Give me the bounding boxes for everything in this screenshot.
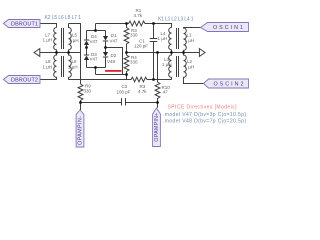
svg-text:330: 330 bbox=[84, 89, 92, 94]
svg-text:1 µH: 1 µH bbox=[158, 36, 168, 41]
svg-text:D2: D2 bbox=[111, 53, 117, 58]
svg-text:K2 L5 L6 L8 L7 1: K2 L5 L6 L8 L7 1 bbox=[45, 15, 82, 21]
svg-text:1 µH: 1 µH bbox=[43, 65, 53, 70]
svg-text:C3: C3 bbox=[122, 84, 128, 89]
svg-text:L5: L5 bbox=[72, 33, 78, 38]
svg-text:V47: V47 bbox=[90, 56, 99, 61]
svg-text:47: 47 bbox=[163, 90, 169, 95]
svg-text:4.7k: 4.7k bbox=[134, 13, 143, 18]
svg-text:1 µH: 1 µH bbox=[185, 65, 195, 70]
svg-text:L1: L1 bbox=[187, 33, 193, 38]
svg-text:1 µH: 1 µH bbox=[162, 62, 172, 67]
svg-text:V47: V47 bbox=[90, 39, 99, 44]
svg-text:1 µH: 1 µH bbox=[69, 38, 79, 43]
svg-text:L6: L6 bbox=[72, 59, 78, 64]
svg-text:1 µH: 1 µH bbox=[43, 38, 53, 43]
svg-text:OPAMPIN-: OPAMPIN- bbox=[78, 116, 84, 145]
svg-text:OPAMPIN+: OPAMPIN+ bbox=[154, 113, 160, 142]
svg-text:L2: L2 bbox=[187, 59, 193, 64]
svg-text:330: 330 bbox=[130, 60, 138, 65]
svg-text:DBROUT2: DBROUT2 bbox=[11, 78, 38, 84]
svg-text:V48: V48 bbox=[107, 59, 116, 64]
svg-text:330: 330 bbox=[130, 33, 138, 38]
svg-text:SPICE Directives [Models]: SPICE Directives [Models] bbox=[168, 105, 238, 111]
svg-text:R1: R1 bbox=[136, 8, 142, 13]
svg-text:.model V47 D(bv=3p Cjo=10.5p): .model V47 D(bv=3p Cjo=10.5p) bbox=[163, 112, 246, 118]
svg-text:DBROUT1: DBROUT1 bbox=[11, 22, 38, 28]
svg-text:100 pF: 100 pF bbox=[117, 89, 131, 94]
svg-text:L8: L8 bbox=[46, 59, 52, 64]
svg-text:.model V48 D(bv=7p Cjo=20.5p): .model V48 D(bv=7p Cjo=20.5p) bbox=[163, 119, 246, 125]
svg-text:1 µH: 1 µH bbox=[68, 65, 78, 70]
svg-text:4.7k: 4.7k bbox=[138, 89, 147, 94]
svg-text:1 µH: 1 µH bbox=[185, 38, 195, 43]
svg-text:120 pF: 120 pF bbox=[134, 44, 148, 49]
svg-text:K1 L1 L2 L3 L4 1: K1 L1 L2 L3 L4 1 bbox=[158, 16, 194, 22]
svg-text:V47: V47 bbox=[110, 38, 119, 43]
